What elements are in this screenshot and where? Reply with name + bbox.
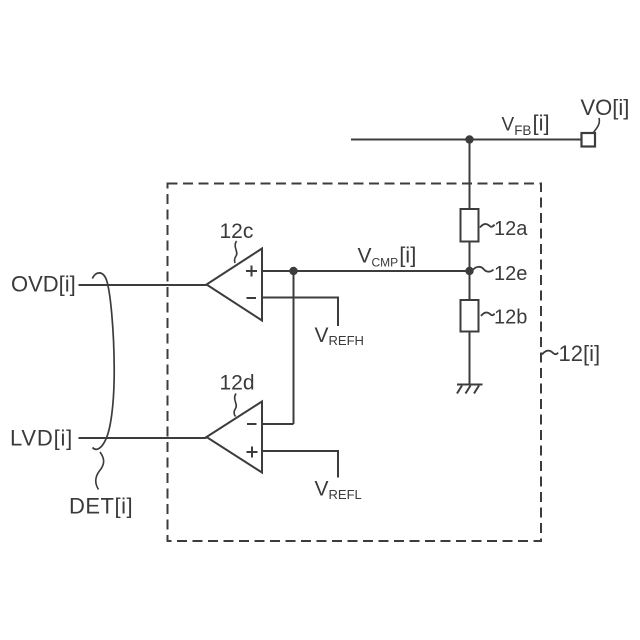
wire 12d plus input to VREFL: [262, 451, 338, 478]
junction node on VCMP line: [289, 267, 297, 275]
plus sign 12d: [247, 447, 258, 458]
svg-text:12e: 12e: [494, 263, 527, 285]
tilde leader 12e: [473, 267, 494, 272]
svg-text:VREFH: VREFH: [315, 324, 364, 348]
comparator 12d: [207, 402, 263, 473]
ground: [457, 385, 483, 394]
svg-text:12[i]: 12[i]: [559, 341, 601, 366]
wire 12c minus input to VREFH: [262, 298, 338, 327]
wire LVD[i]: [79, 437, 207, 439]
svg-text:12d: 12d: [220, 372, 255, 395]
comparator 12c: [207, 249, 263, 321]
wire node down to resistor 12a: [469, 140, 471, 210]
svg-text:OVD[i]: OVD[i]: [11, 272, 76, 297]
dashed block boundary 12[i]: [168, 184, 542, 542]
node junction VFB/divider: [465, 135, 473, 143]
wire VFB horizontal top rail: [351, 139, 582, 141]
wire junction down to comparator 12d minus input: [293, 271, 295, 424]
minus sign 12d: [247, 423, 257, 425]
leader squiggle VO terminal: [593, 118, 599, 133]
svg-text:LVD[i]: LVD[i]: [10, 426, 73, 451]
svg-text:12c: 12c: [220, 220, 254, 243]
svg-text:DET[i]: DET[i]: [69, 494, 133, 519]
svg-text:VO[i]: VO[i]: [581, 95, 630, 120]
leader squiggle 12c: [235, 241, 237, 263]
node 12e: [465, 267, 473, 275]
tilde leader 12b: [481, 312, 495, 316]
svg-text:12b: 12b: [494, 307, 527, 329]
tilde leader 12[i]: [542, 351, 558, 355]
resistor 12b: [461, 300, 479, 332]
wire 12d minus input to junction column: [262, 423, 294, 425]
leader squiggle to DET label: [96, 452, 104, 490]
svg-text:VFB[i]: VFB[i]: [502, 111, 550, 139]
tilde leader 12a: [480, 224, 495, 228]
wire resistor 12a to node 12e and to resistor 12b: [469, 242, 471, 301]
wire OVD[i]: [79, 284, 207, 286]
svg-text:VCMP[i]: VCMP[i]: [358, 243, 417, 270]
minus sign 12c: [247, 297, 257, 299]
svg-text:VREFL: VREFL: [315, 478, 362, 503]
wire VCMP from comparator plus input to node 12e: [262, 270, 470, 272]
plus sign 12c: [246, 266, 257, 277]
brace arc grouping OVD and LVD into DET: [92, 273, 114, 449]
wire resistor 12b to ground: [469, 332, 471, 385]
leader squiggle 12d: [234, 394, 236, 417]
svg-text:12a: 12a: [494, 218, 528, 240]
terminal VO[i] square: [582, 133, 596, 147]
resistor 12a: [461, 209, 479, 242]
